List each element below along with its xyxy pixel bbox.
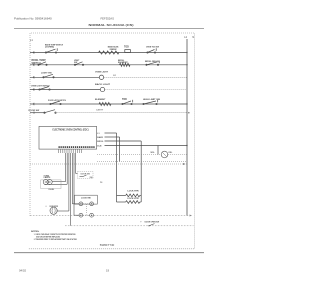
svg-text:19: 19 — [106, 268, 110, 272]
svg-text:ELEMENT: ELEMENT — [118, 62, 128, 64]
svg-text:DOOR OPEN SW: DOOR OPEN SW — [145, 221, 160, 223]
svg-text:DOOR SW: DOOR SW — [81, 173, 90, 175]
svg-text:BAKE: BAKE — [97, 136, 103, 139]
svg-text:SW: SW — [74, 62, 77, 64]
svg-text:BROIL: BROIL — [97, 141, 104, 143]
svg-text:Publication No: 5995416640: Publication No: 5995416640 — [14, 16, 52, 20]
svg-text:ELEMENT: ELEMENT — [95, 99, 106, 101]
svg-text:(OVEN): (OVEN) — [45, 47, 54, 49]
svg-text:CAVITY: CAVITY — [96, 108, 104, 111]
svg-text:AND CIRCUIT BEFORE REPLACING: AND CIRCUIT BEFORE REPLACING — [36, 235, 60, 238]
svg-text:OVEN LIGHT: OVEN LIGHT — [95, 72, 109, 74]
svg-text:TOD: TOD — [124, 47, 129, 49]
svg-text:LOCK SW: LOCK SW — [81, 198, 91, 200]
svg-text:NORMAL SC-6044A (CS): NORMAL SC-6044A (CS) — [89, 23, 134, 27]
svg-text:ELECTRONIC OVEN CONTROL (EOC): ELECTRONIC OVEN CONTROL (EOC) — [53, 130, 89, 132]
svg-text:NOTES:: NOTES: — [31, 231, 40, 233]
svg-text:SW: SW — [90, 177, 93, 179]
svg-text:2. TRANSFER WIRES TO REPLACEM: 2. TRANSFER WIRES TO REPLACEMENT PART ON… — [34, 238, 77, 241]
svg-text:2585W: 2585W — [110, 49, 117, 51]
svg-text:BROIL TEMP: BROIL TEMP — [32, 60, 47, 62]
svg-text:BACK LIGHT: BACK LIGHT — [95, 83, 111, 86]
svg-text:N: N — [192, 36, 194, 39]
svg-text:DOOR MOTOR: DOOR MOTOR — [50, 206, 59, 208]
svg-text:LIGHT SW: LIGHT SW — [41, 73, 53, 75]
svg-text:HIGH LIMIT SW: HIGH LIMIT SW — [143, 99, 161, 101]
svg-text:04/02: 04/02 — [19, 268, 26, 272]
svg-text:FEF352AS: FEF352AS — [101, 16, 115, 20]
svg-text:LOCK HTR: LOCK HTR — [128, 198, 140, 200]
svg-text:TOD: TOD — [122, 99, 127, 101]
svg-text:LOCK HTR: LOCK HTR — [128, 190, 140, 192]
svg-text:LAMPS: LAMPS — [44, 176, 51, 179]
svg-text:5995FT730: 5995FT730 — [100, 243, 115, 247]
svg-text:DOOR SW: DOOR SW — [29, 110, 41, 112]
svg-text:BROIL RELAY: BROIL RELAY — [145, 60, 160, 63]
svg-text:SW: SW — [113, 75, 116, 77]
svg-text:DLB: DLB — [97, 145, 102, 147]
svg-text:OVEN TOD SW: OVEN TOD SW — [146, 47, 160, 49]
svg-text:OL-BL: OL-BL — [48, 189, 55, 191]
